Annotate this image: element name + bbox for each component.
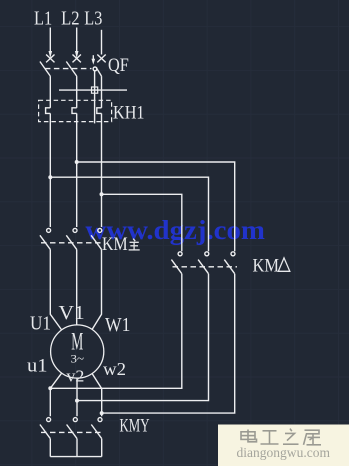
svg-text:3~: 3~ [71, 354, 85, 366]
contactor KMY pole 2 [67, 418, 78, 439]
wire KMY pole3 to star bar [101, 439, 103, 457]
junction L3 branch [100, 192, 104, 196]
KH1 heater element pole 1 [46, 108, 51, 114]
contactor KM main pole 1 [40, 228, 51, 249]
motor M circle [51, 325, 104, 378]
watermark www.dgzj.com [85, 215, 265, 245]
KH1 heater element pole 2 [72, 108, 77, 114]
junction u2 branch [48, 386, 52, 390]
svg-text:KM: KM [253, 256, 280, 276]
svg-text:w2: w2 [103, 359, 126, 379]
watermark box bottom right [218, 425, 349, 466]
svg-text:W1: W1 [105, 314, 130, 336]
wire branch L2 to KM delta [77, 162, 235, 251]
label KM main zhu character [129, 239, 140, 250]
node L3 feed wire [101, 30, 103, 55]
wire KMY pole1 to star bar [49, 439, 51, 457]
svg-text:QF: QF [108, 55, 129, 76]
svg-text:v2: v2 [66, 366, 84, 385]
svg-text:KMY: KMY [120, 415, 150, 436]
contactor KMY pole 1 [40, 418, 51, 439]
junction v2 branch [75, 399, 79, 403]
svg-text:U1: U1 [30, 312, 51, 334]
wire KH1 pole2 to KM main [76, 113, 78, 227]
QF operator arrow [92, 55, 96, 65]
wire motor v2 down [76, 378, 78, 416]
wire QF pole1 to KH1 [49, 76, 51, 108]
QF trip cross marker [92, 87, 98, 93]
wire KM delta pole3 down [102, 274, 235, 413]
svg-text:u1: u1 [27, 356, 48, 377]
wire QF pole2 to KH1 [76, 76, 78, 108]
wire QF pole3 to KH1 [101, 76, 103, 108]
wire KM main pole2 to motor V1 [76, 249, 78, 325]
watermark site name strokes [241, 429, 321, 445]
breaker QF pole 2 [66, 55, 81, 77]
svg-text:L3: L3 [84, 7, 102, 29]
node L1 feed wire [49, 28, 53, 59]
QF trip rod horizontal [59, 89, 127, 91]
contactor KM delta pole 2 [198, 252, 209, 274]
wire branch L1 to KM delta [50, 177, 208, 251]
QF trip rod vertical [94, 71, 96, 124]
contactor KM delta pole 1 [171, 252, 182, 274]
svg-text:M: M [71, 329, 83, 356]
junction L2 branch [75, 160, 79, 164]
KH1 heater element pole 3 [97, 108, 102, 114]
wire branch L3 to KM delta [102, 194, 182, 251]
star point bar [50, 456, 101, 458]
junction w2 branch [100, 411, 104, 415]
contactor KM main pole 3 [91, 228, 102, 249]
wire KH1 pole3 to KM main [101, 113, 103, 227]
contactor KMY pole 3 [91, 418, 102, 439]
breaker QF pole 3 [96, 55, 106, 77]
label delta triangle [278, 258, 290, 271]
KMY linkage dashed bar [41, 431, 104, 433]
thermal overload KH1 box [39, 100, 112, 121]
breaker QF pole 1 [40, 55, 55, 77]
svg-text:V1: V1 [59, 302, 85, 324]
KM delta linkage dashed bar [173, 266, 238, 268]
wire KMY pole2 to star bar [76, 439, 78, 457]
QF linkage dashed bar [45, 68, 92, 70]
wire KM main pole1 to motor U1 [50, 249, 62, 330]
svg-text:L1: L1 [34, 7, 52, 29]
svg-text:KH1: KH1 [113, 103, 145, 124]
QF operator pivot circle [93, 67, 97, 71]
svg-text:diangongwu.com: diangongwu.com [237, 445, 331, 460]
KM main linkage dashed bar [41, 242, 104, 244]
junction L1 branch [48, 175, 52, 179]
wire KM delta pole2 down [77, 274, 209, 401]
contactor KM main pole 2 [66, 228, 77, 249]
wire KM delta pole1 down [50, 274, 182, 389]
node L2 feed wire [75, 28, 79, 59]
wire KH1 pole1 to KM main [49, 113, 51, 227]
contactor KM delta pole 3 [224, 252, 235, 274]
wire motor w2 down [92, 373, 102, 416]
watermark site url [237, 445, 331, 460]
wire motor u2 down [50, 373, 62, 416]
wire KM main pole3 to motor W1 [92, 249, 102, 329]
svg-text:KM: KM [102, 235, 128, 255]
svg-text:L2: L2 [61, 7, 79, 29]
